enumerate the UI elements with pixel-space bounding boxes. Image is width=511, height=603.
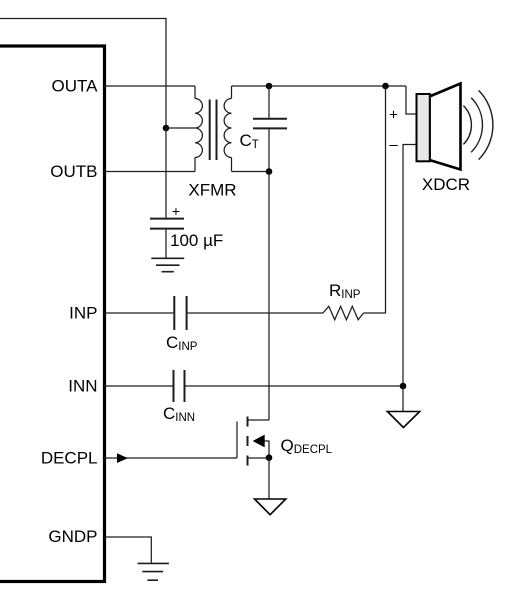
- arrow DECPL: [117, 453, 128, 463]
- wire CT top: [268, 86, 270, 118]
- node speaker plus: [382, 83, 389, 90]
- ground under GNDP: [138, 563, 169, 580]
- wire to right ground arrow: [402, 386, 404, 411]
- wire DECPL: [105, 457, 238, 459]
- svg-text:CINN: CINN: [163, 404, 195, 424]
- wire INN: [105, 385, 173, 387]
- transformer XFMR secondary: [224, 86, 231, 172]
- wire CT bottom: [268, 129, 270, 171]
- wire resistor to speaker plus node: [364, 86, 386, 313]
- wire source to ground arrow: [268, 458, 270, 499]
- speaker XDCR cone: [430, 84, 461, 170]
- ground arrow right: [387, 412, 419, 428]
- svg-text:+: +: [172, 203, 180, 219]
- svg-text:DECPL: DECPL: [41, 449, 98, 468]
- wire INN to minus node: [186, 385, 404, 387]
- svg-text:RINP: RINP: [329, 281, 361, 301]
- svg-text:INN: INN: [68, 377, 97, 396]
- mosfet bulk arrow: [253, 435, 265, 448]
- mosfet channel dashes: [247, 417, 249, 466]
- transformer core: [210, 100, 217, 161]
- mosfet QDECPL gate: [236, 422, 238, 459]
- wire speaker minus lead: [403, 145, 417, 387]
- wire center tap: [166, 127, 195, 129]
- wire OUTA: [105, 85, 196, 87]
- svg-text:–: –: [389, 137, 398, 154]
- wire secondary top to speaker: [232, 85, 407, 87]
- svg-text:XFMR: XFMR: [188, 181, 236, 200]
- wire INP to resistor: [188, 312, 323, 314]
- svg-text:CT: CT: [240, 131, 259, 151]
- speaker XDCR body: [417, 94, 430, 161]
- node secondary bottom: [266, 168, 273, 175]
- transformer XFMR primary: [195, 86, 202, 172]
- node center-tap junction: [163, 125, 170, 132]
- wire to mosfet drain: [268, 172, 270, 421]
- mosfet drain lead: [248, 419, 270, 421]
- svg-text:CINP: CINP: [166, 333, 198, 353]
- svg-text:100 µF: 100 µF: [170, 231, 223, 250]
- wire secondary bottom: [232, 171, 270, 173]
- capacitor CT: [253, 119, 287, 129]
- node source bulk: [266, 454, 273, 461]
- svg-text:INP: INP: [69, 304, 97, 323]
- svg-text:OUTA: OUTA: [52, 77, 99, 96]
- svg-text:XDCR: XDCR: [422, 175, 470, 194]
- ground under 100uF: [151, 258, 184, 271]
- sound waves: [463, 90, 493, 159]
- IC box U1: [0, 46, 105, 582]
- wire top supply: [0, 19, 166, 129]
- svg-text:GNDP: GNDP: [48, 527, 97, 546]
- wire cap to ground: [165, 229, 167, 259]
- wire OUTB: [105, 171, 196, 173]
- node INN minus junction: [400, 383, 407, 390]
- mosfet source lead: [248, 457, 270, 459]
- node CT top: [266, 83, 273, 90]
- capacitor 100uF: [150, 219, 184, 229]
- wire to bypass cap: [165, 128, 167, 218]
- svg-text:+: +: [389, 107, 398, 124]
- wire speaker plus lead: [406, 86, 417, 114]
- ground arrow bottom: [255, 499, 286, 515]
- wire GNDP: [105, 537, 152, 563]
- svg-text:QDECPL: QDECPL: [281, 436, 333, 456]
- svg-text:OUTB: OUTB: [50, 162, 97, 181]
- resistor RINP: [323, 306, 364, 320]
- capacitor CINP: [174, 296, 186, 330]
- mosfet bulk wire: [264, 441, 269, 458]
- wire INP: [105, 312, 174, 314]
- capacitor CINN: [174, 370, 185, 402]
